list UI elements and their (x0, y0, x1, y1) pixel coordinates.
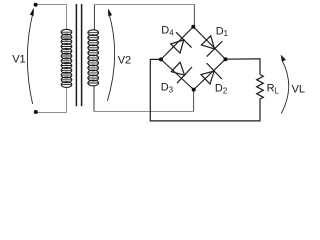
transformer core line left (75, 4, 77, 106)
V2 voltage arrow arc (107, 12, 114, 101)
primary winding coil (61, 29, 72, 87)
primary coil wire backs (62, 32, 71, 84)
wire from secondary coil top up (93, 4, 95, 30)
secondary winding coil (88, 30, 99, 86)
secondary coil wire backs (89, 33, 98, 83)
wire from top-left terminal to primary coil top (36, 5, 67, 31)
diode D2 (201, 63, 222, 84)
resistor RL zigzag (257, 75, 264, 100)
diode D1 (201, 36, 222, 57)
node bridge bottom (192, 88, 196, 92)
wire bridge left node to bottom rail and to load bottom (150, 59, 260, 121)
node bridge right (224, 57, 228, 61)
svg-text:VL: VL (292, 84, 305, 96)
wire bridge right node to load top (226, 59, 261, 75)
wire drop to bridge top node (193, 5, 195, 27)
top rail wire to bridge (94, 4, 195, 6)
wire from bottom-left terminal to primary coil bottom (36, 87, 67, 113)
node bridge left (159, 57, 163, 61)
wire rise to bridge bottom node (193, 90, 195, 112)
diode D4 (171, 32, 192, 53)
node top-left input terminal (34, 3, 38, 7)
V1 voltage arrow arc (27, 12, 33, 105)
wire from secondary coil bottom down (93, 85, 95, 112)
svg-text:V1: V1 (12, 53, 25, 65)
bridge diamond wires (161, 27, 226, 90)
diode D3 (171, 62, 192, 83)
transformer core line right (81, 4, 83, 106)
bottom wire to bridge (94, 111, 194, 113)
VL voltage arrow arc (281, 60, 288, 114)
node bridge top (191, 25, 195, 29)
node bottom-left input terminal (34, 110, 38, 114)
svg-text:V2: V2 (118, 54, 131, 66)
